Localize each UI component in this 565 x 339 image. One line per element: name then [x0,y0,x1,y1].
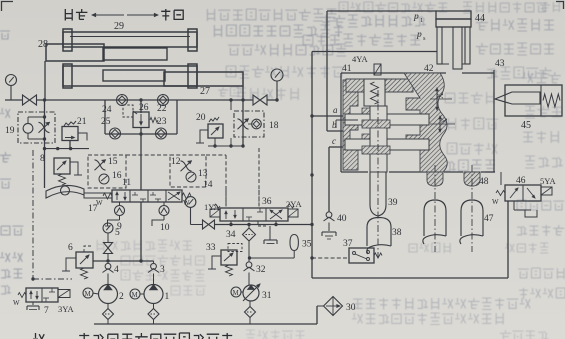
svg-text:6: 6 [68,243,73,253]
svg-text:20: 20 [196,113,206,123]
svg-text:2YA: 2YA [286,199,302,209]
svg-text:41: 41 [342,64,352,74]
svg-text:37: 37 [343,239,353,249]
svg-text:23: 23 [157,117,167,127]
svg-text:26: 26 [139,103,149,113]
svg-text:1: 1 [165,292,170,302]
svg-text:39: 39 [388,198,398,208]
svg-text:c: c [332,136,336,146]
svg-text:24: 24 [102,105,112,115]
svg-text:1YA: 1YA [204,202,220,212]
svg-text:M: M [85,290,92,298]
svg-text:5YA: 5YA [540,176,556,186]
svg-text:4: 4 [114,265,119,275]
svg-text:18: 18 [269,121,279,131]
svg-text:29: 29 [114,21,124,32]
svg-text:a: a [333,105,338,115]
svg-text:7: 7 [44,306,49,316]
svg-text:W: W [13,299,20,307]
svg-text:X: X [439,118,449,124]
svg-text:30: 30 [346,303,356,313]
svg-text:19: 19 [5,126,15,136]
svg-text:M: M [132,291,139,299]
svg-text:8: 8 [40,154,45,164]
svg-text:10: 10 [160,223,170,233]
svg-text:46: 46 [516,176,526,186]
svg-text:36: 36 [262,197,272,207]
svg-text:44: 44 [475,13,485,24]
svg-text:p: p [413,12,419,22]
svg-text:31: 31 [262,291,272,301]
svg-text:4YA: 4YA [352,54,368,64]
svg-text:15: 15 [108,157,118,167]
svg-text:28: 28 [38,39,48,50]
svg-text:45: 45 [521,120,531,131]
svg-text:42: 42 [424,64,434,74]
svg-text:38: 38 [392,228,402,238]
svg-text:1: 1 [420,17,423,24]
svg-text:21: 21 [77,117,87,127]
svg-text:14: 14 [203,180,213,190]
svg-text:13: 13 [198,169,208,179]
svg-text:48: 48 [479,177,489,187]
svg-text:W: W [96,199,103,207]
svg-text:12: 12 [171,157,181,167]
svg-text:22: 22 [157,104,167,114]
svg-text:W: W [492,198,499,206]
svg-text:16: 16 [112,171,122,181]
svg-text:25: 25 [101,117,111,127]
svg-text:47: 47 [484,214,494,224]
svg-text:X: X [435,93,445,99]
svg-text:11: 11 [122,178,131,188]
svg-text:2: 2 [119,292,124,302]
svg-text:34: 34 [226,230,236,240]
svg-text:3: 3 [160,265,165,275]
svg-text:32: 32 [256,265,266,275]
svg-text:27: 27 [200,86,210,97]
svg-text:5: 5 [115,228,120,238]
svg-text:33: 33 [206,243,216,253]
svg-text:35: 35 [302,240,312,250]
svg-text:40: 40 [337,214,347,224]
svg-text:3YA: 3YA [58,304,74,314]
svg-text:p: p [416,30,422,40]
svg-text:43: 43 [495,59,505,69]
svg-text:M: M [233,289,240,297]
